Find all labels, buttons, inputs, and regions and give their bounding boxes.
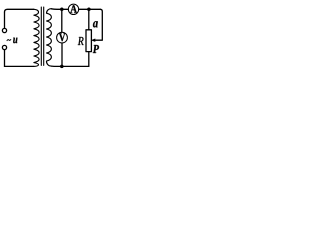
- source tilde: [7, 40, 11, 41]
- wire right vertical to wiper: [94, 9, 102, 40]
- node junction bottom: [60, 65, 64, 69]
- resistor label R: [78, 37, 84, 45]
- wire left vertical upper: [4, 12, 6, 28]
- resistor R body: [86, 30, 91, 52]
- transformer T secondary winding: [46, 9, 51, 66]
- voltmeter label V: [59, 33, 65, 41]
- wiper label P: [93, 45, 99, 53]
- wire top-left horizontal: [5, 9, 34, 12]
- ammeter U1 circle: [68, 4, 78, 14]
- wiper arrowhead: [91, 39, 96, 42]
- wire voltmeter bottom lead: [61, 43, 63, 66]
- wire resistor bottom lead: [88, 52, 90, 67]
- wire secondary bottom: [51, 65, 89, 67]
- voltmeter circle: [57, 32, 68, 43]
- transformer core line 1: [40, 7, 42, 65]
- wire voltmeter top lead: [61, 9, 63, 32]
- source label u: [13, 38, 17, 44]
- wire ammeter to top-right corner: [79, 8, 101, 10]
- wire bottom-left horizontal: [5, 65, 34, 67]
- transformer T primary winding: [34, 9, 39, 66]
- node junction resistor top: [87, 8, 91, 12]
- terminal lower: [2, 45, 6, 49]
- ammeter label A: [70, 5, 77, 12]
- wire resistor top lead: [88, 9, 90, 30]
- terminal upper: [2, 28, 6, 32]
- node label a: [93, 21, 98, 27]
- transformer core line 2: [43, 7, 45, 65]
- node junction top (voltmeter tap): [60, 8, 64, 12]
- wire secondary top to ammeter: [51, 8, 68, 11]
- wire left vertical lower: [4, 50, 6, 67]
